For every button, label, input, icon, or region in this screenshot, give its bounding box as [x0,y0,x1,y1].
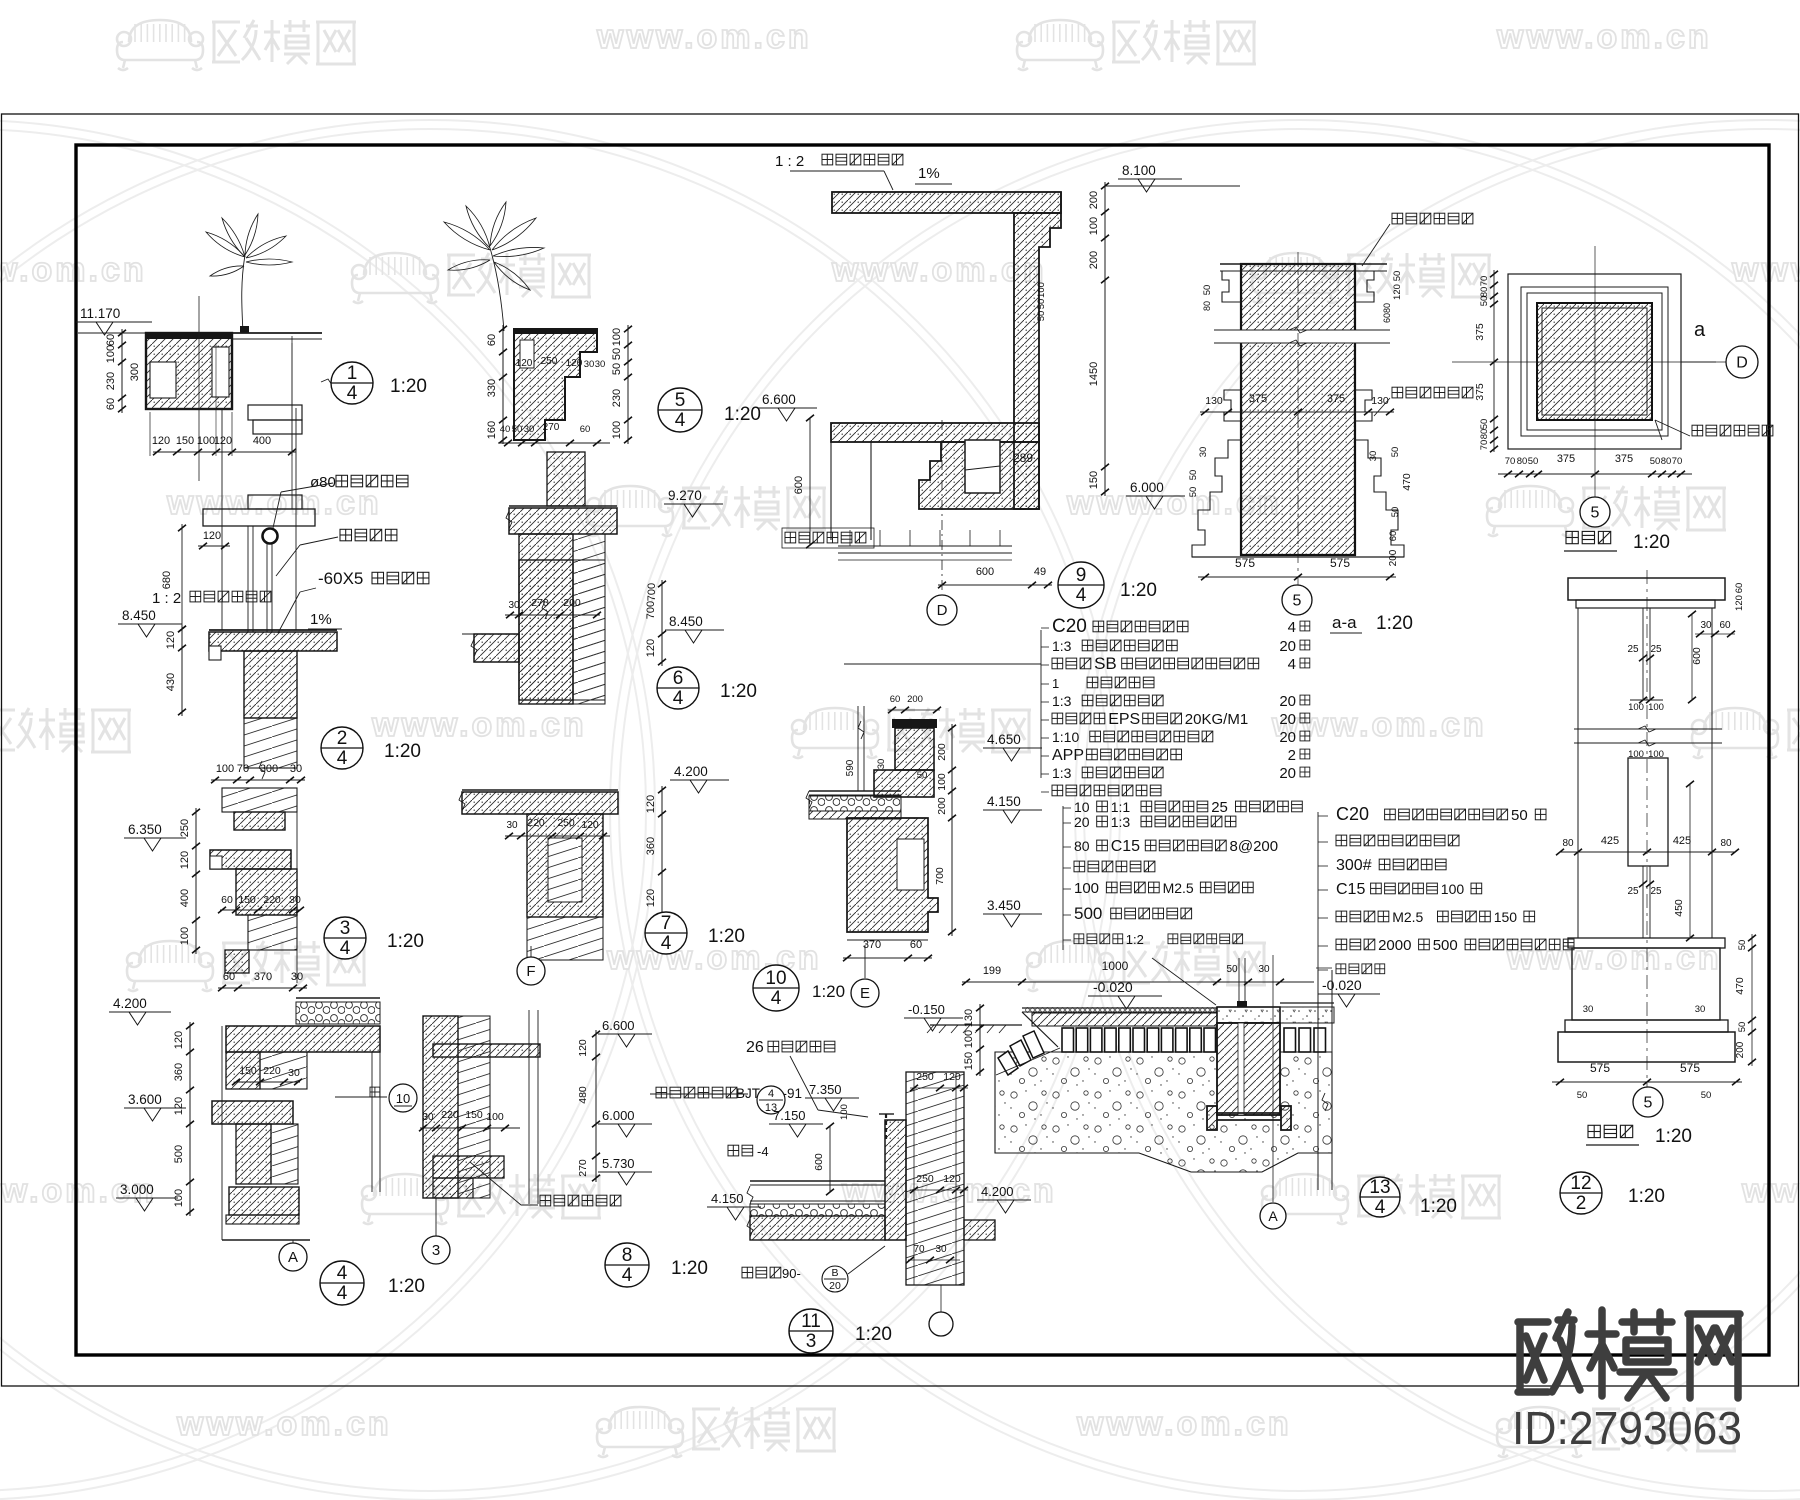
svg-text:430: 430 [165,673,177,691]
svg-text:600: 600 [793,476,805,494]
svg-text:100: 100 [1036,282,1047,298]
svg-text:100: 100 [179,927,191,945]
top cap lines [1220,263,1387,265]
svg-text:30: 30 [876,759,887,770]
svg-text:150: 150 [1088,471,1100,489]
svg-text:160: 160 [486,421,498,439]
floor slab top with insulation 4/4 [296,997,380,999]
svg-text:120: 120 [214,435,232,447]
svg-text:2000: 2000 [1378,937,1411,954]
dimension row under detail 1/4: 120 150 100 120 400 [153,451,296,453]
svg-text:B: B [831,1267,838,1279]
svg-text:120: 120 [173,1031,185,1049]
cornice body 5/4 [514,329,597,440]
svg-text:100: 100 [105,345,117,363]
svg-text:30: 30 [1700,620,1712,631]
svg-text:80: 80 [1074,838,1090,854]
svg-text:60: 60 [105,398,117,410]
svg-text:6.000: 6.000 [1130,480,1164,495]
wall strip upper 3/4 [222,788,297,812]
svg-text:4.150: 4.150 [987,794,1021,809]
svg-text:A: A [1268,1208,1278,1224]
white slot in planter [212,347,229,397]
svg-text:1:2: 1:2 [1126,932,1144,947]
svg-text:200: 200 [563,597,581,609]
svg-text:375: 375 [1474,323,1486,341]
svg-text:50: 50 [1701,1090,1712,1101]
svg-text:270: 270 [531,597,549,609]
lower stepped band of 9/4 [919,442,1039,509]
svg-text:50: 50 [1479,419,1490,430]
svg-text:250: 250 [179,819,191,837]
svg-text:200: 200 [936,743,948,761]
svg-text:M2.5: M2.5 [1163,880,1194,896]
wall of detail 6/4 [519,560,573,704]
svg-text:30: 30 [290,763,302,775]
floor slab 8.450 of 6/4 [474,634,519,662]
svg-text:6.000: 6.000 [602,1108,635,1123]
plan center lines [1452,361,1748,363]
step ledge 3/4 [234,812,285,830]
svg-text:120: 120 [516,358,533,369]
lower slab piece of 8/4 [433,1156,504,1178]
svg-text:199: 199 [983,965,1001,977]
break line across wall [1237,330,1359,343]
svg-text:330: 330 [486,379,498,397]
svg-text:120: 120 [577,1039,589,1057]
svg-text:1:20: 1:20 [708,926,745,947]
svg-text:2: 2 [1576,1193,1587,1214]
svg-text:10: 10 [1074,799,1090,815]
svg-text:150: 150 [963,1052,975,1070]
svg-text:375: 375 [1615,453,1633,465]
plan bottom dims [1498,473,1692,475]
svg-text:30: 30 [584,359,595,370]
svg-text:10: 10 [765,968,786,989]
svg-text:30: 30 [1695,1004,1706,1015]
svg-text:EPS: EPS [1108,711,1140,728]
svg-text:25: 25 [1627,886,1639,897]
foundation wall with dotted cap [1217,1007,1280,1023]
svg-text:5: 5 [1644,1095,1653,1112]
svg-text:200: 200 [1388,549,1399,566]
floor slab 3/4 [210,850,291,869]
svg-text:70: 70 [1672,456,1683,467]
big logo WANG character [1688,1314,1740,1398]
svg-text:200: 200 [1735,1041,1746,1058]
svg-text:80: 80 [1202,301,1212,311]
svg-text:100: 100 [1628,702,1644,713]
watermark arcs [0,120,655,1500]
svg-text:500: 500 [1074,904,1102,923]
elevation dims 80 425 425 80 [1560,851,1735,853]
plant left of detail 1/4 [242,255,245,333]
svg-text:450: 450 [1673,899,1685,917]
svg-text:E: E [860,985,870,1002]
elevation pedestal [1568,938,1725,948]
svg-text:20: 20 [1279,638,1296,655]
svg-text:a: a [1694,319,1706,341]
svg-text:80: 80 [1479,287,1490,298]
center line of column [1297,252,1299,592]
svg-text:425: 425 [1601,835,1619,847]
suspended ceiling lines [838,545,1012,547]
railing top cap [203,509,315,526]
ground line and earth hatch left [930,1024,1022,1026]
dims 130 375 375 130 [1200,411,1394,413]
svg-text:9.270: 9.270 [668,488,702,503]
svg-text:1:20: 1:20 [671,1258,708,1279]
svg-text:60: 60 [580,424,591,435]
svg-text:1:20: 1:20 [855,1324,892,1345]
reference bubble 10 with leader [335,1096,387,1098]
svg-text:3: 3 [432,1242,440,1259]
svg-text:25: 25 [1627,644,1639,655]
svg-text:600: 600 [1691,647,1703,665]
main wall right of eave [906,1072,964,1285]
svg-text:130: 130 [1371,395,1389,407]
svg-text:250: 250 [557,817,575,829]
balloon 3/4 [324,917,366,959]
wall face double line right [528,1010,530,1204]
svg-text:50: 50 [1392,271,1403,282]
plant right (above detail 5/4) [490,248,504,331]
deck steps below right [248,405,302,420]
elevation column outer lines [1577,608,1579,938]
svg-text:150: 150 [1494,909,1518,925]
svg-text:120: 120 [179,851,191,869]
svg-text:100: 100 [963,1030,975,1048]
svg-text:50: 50 [1390,447,1401,458]
svg-text:150: 150 [465,1109,483,1121]
grid bubble F [530,946,532,957]
svg-text:1: 1 [347,363,358,384]
balloon 6/4 [657,667,699,709]
svg-text:50: 50 [1036,299,1047,310]
grid bubble D with centerline [941,420,943,594]
bottom dim 600 of 9/4 [938,584,1052,586]
reference bubble 4/13 [757,1086,785,1114]
leader dry-hang stone trim mid [1392,387,1473,398]
svg-text:6.350: 6.350 [128,822,162,837]
balloon 8/4 [605,1243,649,1287]
balloon 9/4 [1058,562,1104,608]
svg-text:4.200: 4.200 [113,996,147,1011]
svg-text:200: 200 [936,797,948,815]
balloon 7/4 [645,912,687,954]
svg-text:100: 100 [1441,881,1465,897]
svg-text:50: 50 [1511,807,1528,824]
svg-text:4: 4 [675,410,686,431]
svg-text:F: F [526,963,535,980]
svg-text:60: 60 [486,334,498,346]
svg-text:20: 20 [1279,711,1296,728]
left molding profile top [1222,271,1241,302]
svg-text:30: 30 [1583,1004,1594,1015]
ceiling leader of 8/4 [470,1162,521,1205]
svg-text:575: 575 [1330,556,1350,570]
svg-text:20: 20 [1279,765,1296,782]
svg-text:4.200: 4.200 [981,1184,1014,1199]
elevation top cap [1568,578,1725,600]
break mark and balloon 1/4 [321,379,339,385]
right dim 700 and 120 [661,580,663,666]
svg-text:375: 375 [1249,393,1267,405]
svg-text:1:3: 1:3 [1052,638,1072,654]
svg-text:470: 470 [1734,977,1746,995]
svg-text:200: 200 [907,694,923,705]
balloon 13/4 [1360,1177,1400,1217]
svg-text:60: 60 [105,334,117,346]
svg-text:49: 49 [1034,566,1046,578]
dim row 100 70 300 30 [211,779,305,781]
wall below slab 2/4 [244,651,297,718]
svg-text:375: 375 [1474,383,1486,401]
vertical dim 600 left [809,418,811,545]
svg-text:130: 130 [1205,395,1223,407]
bottom dims 575 575 of detail 5 [1198,576,1396,578]
top dims 199 1000 50 30 [962,981,1314,983]
svg-text:50: 50 [1577,1090,1588,1101]
svg-text:270: 270 [543,422,560,433]
left dim chain 250 120 400 100 [195,808,197,954]
wall mid 4/4 [236,1124,271,1184]
pipe mount block on planter top [240,326,249,333]
svg-text:370: 370 [863,939,881,951]
svg-text:11: 11 [801,1311,821,1332]
svg-text:6.600: 6.600 [762,392,796,407]
svg-text:4: 4 [771,988,782,1009]
svg-text:1:20: 1:20 [1633,532,1670,553]
leader text black iron art [340,529,397,541]
svg-text:120: 120 [173,1097,185,1115]
svg-text:30: 30 [289,894,301,906]
svg-text:20: 20 [829,1280,841,1292]
svg-text:1%: 1% [310,611,332,628]
svg-text:50: 50 [1188,487,1199,498]
apron hatch band [1032,1013,1217,1026]
interior floor slab right [964,1220,995,1240]
svg-text:4: 4 [337,1283,348,1304]
svg-text:1:3: 1:3 [1052,765,1072,781]
svg-text:www.om.cn: www.om.cn [596,18,812,56]
wall stub above ground [1238,958,1240,1007]
plan bubble 5 and title [1580,497,1610,527]
svg-text:500: 500 [1433,937,1458,954]
svg-text:50: 50 [1390,507,1401,518]
svg-text:50: 50 [611,363,623,375]
roof slab left of 10/4 [809,790,901,792]
svg-text:4: 4 [1288,656,1296,673]
svg-text:50: 50 [1202,285,1213,296]
svg-text:1%: 1% [918,165,940,182]
balloon 2/4 [321,727,363,769]
svg-text:80: 80 [1562,838,1574,849]
ceiling slab of 8/4 [433,1044,540,1057]
svg-text:60: 60 [1719,620,1731,631]
svg-text:50: 50 [611,348,623,360]
svg-text:1:20: 1:20 [1376,613,1413,634]
svg-text:1: 1 [1052,676,1059,691]
svg-text:26: 26 [746,1039,764,1056]
svg-text:220: 220 [263,894,281,906]
svg-text:1:20: 1:20 [1120,580,1157,601]
cornice cap of 10/4 [892,719,937,728]
right dims 120 360 120 [661,786,663,921]
white notch lower-left of planter [150,362,176,398]
svg-text:230: 230 [105,372,117,390]
speckled concrete ground mass [995,1052,1332,1172]
svg-text:50: 50 [1650,456,1661,467]
svg-text:400: 400 [253,435,271,447]
svg-text:360: 360 [173,1063,185,1081]
svg-text:20KG/M1: 20KG/M1 [1185,711,1248,728]
step foot 3/4 [225,950,249,973]
vertical dim 600 at eave [829,1126,831,1192]
svg-text:120: 120 [566,358,583,369]
svg-text:3: 3 [340,918,351,939]
svg-text:680: 680 [161,571,173,589]
svg-text:575: 575 [1680,1061,1700,1075]
svg-text:C20: C20 [1052,616,1087,637]
svg-text:6.600: 6.600 [602,1018,635,1033]
svg-text:20: 20 [1074,814,1090,830]
svg-text:360: 360 [645,837,657,855]
svg-text:50: 50 [1226,964,1238,975]
right dims of 5/4 [627,325,629,444]
balloon 11/3 [789,1309,833,1353]
svg-text:25: 25 [1650,886,1662,897]
svg-text:150: 150 [239,1065,257,1077]
svg-text:220: 220 [263,1065,281,1077]
section bubble 5 [1282,585,1312,615]
leader dash to compacted soil note [1316,967,1332,969]
svg-text:7.150: 7.150 [773,1108,806,1123]
svg-text:4.200: 4.200 [674,764,708,779]
svg-text:575: 575 [1590,1061,1610,1075]
balloon 10/4 [753,965,799,1011]
svg-text:D: D [1736,355,1748,372]
svg-text:1 : 2: 1 : 2 [152,590,181,607]
wall of 10/4 with drip step [847,818,938,932]
svg-text:80: 80 [1517,456,1528,467]
svg-text:www.om.cn: www.om.cn [1271,706,1487,744]
svg-text:a-a: a-a [1332,613,1357,632]
svg-text:ø80: ø80 [310,474,336,491]
svg-text:120: 120 [203,530,221,542]
upper wall lines of 10/4 [857,706,859,791]
svg-text:APP: APP [1052,747,1084,764]
svg-text:1450: 1450 [1088,362,1100,386]
elevation bubble 5 and title [1633,1087,1663,1117]
steel pipe circle (ø80) [263,529,278,544]
svg-text:1:20: 1:20 [1420,1196,1457,1217]
elevation right dim chain [1751,934,1753,1066]
tilted bricks at apron edge [1023,1031,1044,1058]
big logo MO character [1588,1310,1616,1396]
plan outer squares [1508,274,1681,449]
grid bubble empty bottom [940,1285,942,1312]
svg-text:120: 120 [1734,595,1745,611]
svg-text:M2.5: M2.5 [1392,909,1423,925]
svg-text:1:20: 1:20 [720,681,757,702]
svg-text:375: 375 [1327,393,1345,405]
svg-text:60: 60 [1382,313,1392,323]
wall face verticals right 4/4 [371,1052,373,1192]
svg-text:60: 60 [1388,531,1399,542]
ceiling leader text 9/4 [785,532,866,543]
vertical wall lines above planter [198,296,200,481]
watermark tiles [117,20,203,70]
svg-text:70: 70 [1479,276,1490,287]
svg-text:100: 100 [1074,880,1099,897]
wall below 3/4 [236,869,297,915]
svg-text:30: 30 [1198,447,1209,458]
slab at 9.270 [509,505,617,507]
right molding profile top [1355,271,1374,302]
svg-text:100: 100 [839,1104,850,1120]
svg-text:3.000: 3.000 [120,1182,154,1197]
svg-text:80: 80 [1720,838,1732,849]
svg-text:50: 50 [1528,456,1539,467]
svg-text:5: 5 [1591,505,1600,522]
svg-text:80: 80 [1382,303,1392,313]
svg-text:1000: 1000 [1102,959,1129,973]
wall below cornice 5/4 [547,452,585,506]
svg-text:250: 250 [916,1173,934,1185]
eave upstand wall [885,1120,906,1240]
grid bubble A [292,1240,294,1243]
grid line and bubble A foundation [1272,955,1274,1202]
svg-text:4: 4 [1375,1197,1386,1218]
svg-text:30: 30 [422,1112,434,1123]
svg-text:500: 500 [173,1145,185,1163]
svg-text:13: 13 [1369,1177,1390,1198]
balloon 12/2 [1560,1172,1602,1214]
svg-text:-0.020: -0.020 [1093,979,1133,995]
svg-text:120: 120 [1392,284,1403,300]
svg-text:25: 25 [1650,644,1662,655]
svg-text:250: 250 [541,356,558,367]
svg-text:60: 60 [890,694,901,705]
balloon 5/4 [658,388,702,432]
railing vertical lines [221,408,223,630]
svg-text:30: 30 [1368,451,1379,462]
svg-text:300#: 300# [1336,857,1372,874]
svg-text:120: 120 [943,1173,961,1185]
svg-text:80: 80 [1479,429,1490,440]
svg-text:30: 30 [935,1244,947,1255]
svg-text:4.150: 4.150 [711,1191,744,1206]
svg-text:20: 20 [1279,729,1296,746]
bottom dims 370 60 of 10/4 [843,957,932,959]
brick course row [1062,1028,1074,1052]
svg-text:100: 100 [1648,702,1664,713]
svg-text:289: 289 [1013,451,1033,465]
svg-text:100: 100 [611,328,623,346]
svg-text:8.450: 8.450 [669,614,703,629]
svg-text:11.170: 11.170 [80,306,120,321]
spec list 1 (roof build-up) with bracket [844,663,1041,665]
svg-text:250: 250 [916,1071,934,1083]
svg-text:4: 4 [340,938,351,959]
svg-text:60: 60 [223,971,235,983]
svg-text:4: 4 [622,1265,633,1286]
svg-text:230: 230 [611,389,623,407]
svg-text:8.100: 8.100 [1122,163,1156,178]
svg-text:120: 120 [943,1071,961,1083]
svg-text:270: 270 [577,1159,589,1177]
